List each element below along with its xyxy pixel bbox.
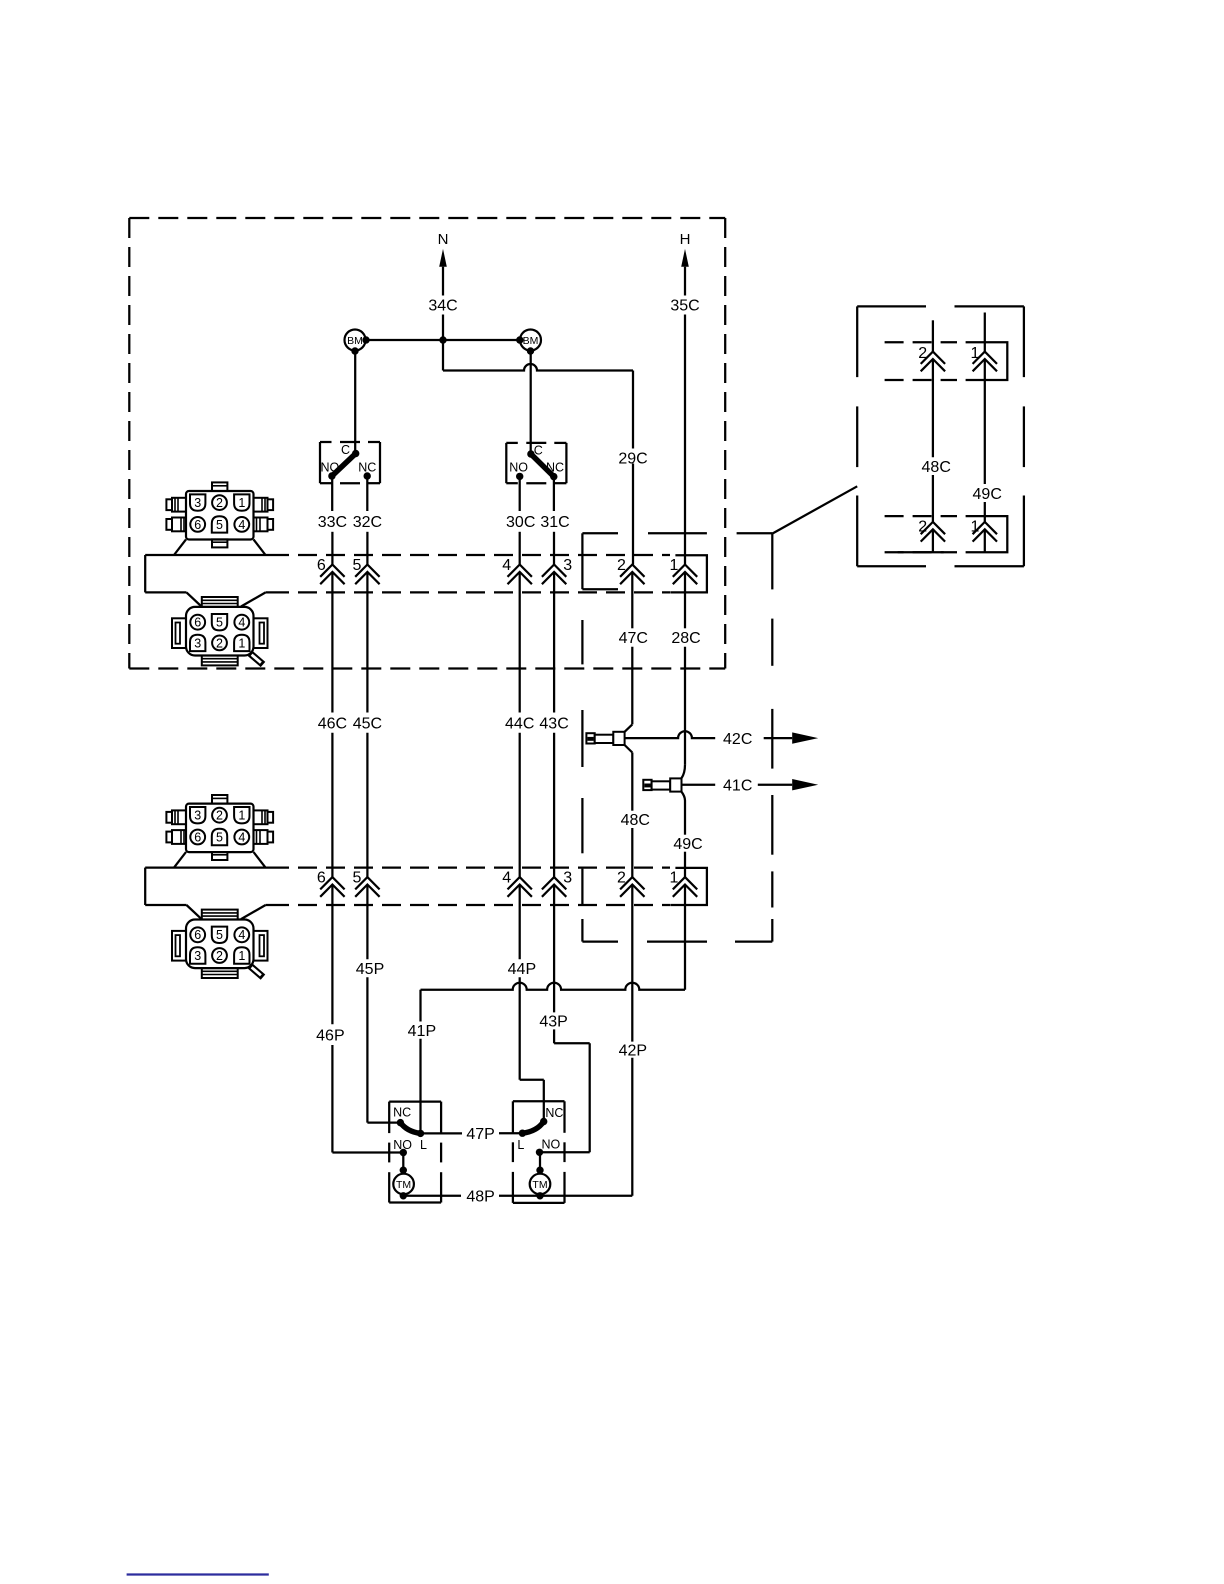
svg-text:C: C	[341, 443, 350, 457]
svg-text:42C: 42C	[723, 731, 752, 748]
svg-text:41C: 41C	[723, 777, 752, 794]
svg-text:NO: NO	[509, 461, 528, 475]
svg-text:48C: 48C	[922, 459, 951, 476]
svg-text:5: 5	[216, 518, 223, 532]
svg-text:BM: BM	[523, 335, 539, 347]
svg-text:43C: 43C	[539, 715, 568, 732]
svg-text:2: 2	[617, 557, 626, 574]
svg-text:L: L	[517, 1138, 524, 1152]
svg-text:35C: 35C	[670, 297, 699, 314]
svg-text:2: 2	[918, 345, 927, 362]
svg-text:44C: 44C	[505, 715, 534, 732]
svg-text:31C: 31C	[540, 514, 569, 531]
svg-text:5: 5	[216, 616, 223, 630]
svg-text:NC: NC	[393, 1105, 411, 1119]
svg-text:4: 4	[238, 830, 245, 844]
svg-text:2: 2	[216, 496, 223, 510]
svg-text:47P: 47P	[466, 1126, 494, 1143]
svg-text:4: 4	[502, 557, 511, 574]
svg-text:30C: 30C	[506, 514, 535, 531]
svg-text:N: N	[438, 231, 449, 248]
svg-text:41P: 41P	[408, 1023, 436, 1040]
svg-text:TM: TM	[396, 1179, 411, 1191]
svg-text:33C: 33C	[318, 514, 347, 531]
svg-text:6: 6	[194, 830, 201, 844]
svg-text:1: 1	[238, 636, 245, 650]
svg-text:5: 5	[216, 928, 223, 942]
svg-text:6: 6	[194, 518, 201, 532]
svg-text:NO: NO	[542, 1138, 561, 1152]
svg-text:3: 3	[563, 557, 572, 574]
svg-text:3: 3	[194, 809, 201, 823]
svg-text:45P: 45P	[356, 961, 384, 978]
svg-text:5: 5	[353, 557, 362, 574]
svg-text:1: 1	[238, 949, 245, 963]
svg-text:46P: 46P	[316, 1027, 344, 1044]
svg-text:46C: 46C	[318, 715, 347, 732]
svg-text:3: 3	[194, 496, 201, 510]
svg-text:3: 3	[194, 636, 201, 650]
svg-text:H: H	[680, 231, 691, 248]
svg-text:4: 4	[502, 870, 511, 887]
svg-text:42P: 42P	[619, 1042, 647, 1059]
svg-text:1: 1	[971, 345, 980, 362]
svg-text:1: 1	[670, 557, 679, 574]
svg-text:34C: 34C	[428, 297, 457, 314]
svg-text:L: L	[420, 1138, 427, 1152]
svg-text:1: 1	[238, 809, 245, 823]
svg-text:2: 2	[216, 636, 223, 650]
svg-text:4: 4	[238, 616, 245, 630]
svg-text:4: 4	[238, 518, 245, 532]
svg-text:3: 3	[194, 949, 201, 963]
svg-text:49C: 49C	[973, 486, 1002, 503]
svg-text:6: 6	[194, 928, 201, 942]
svg-text:43P: 43P	[539, 1013, 567, 1030]
svg-text:47C: 47C	[619, 630, 648, 647]
svg-text:48C: 48C	[621, 812, 650, 829]
svg-text:NC: NC	[358, 461, 376, 475]
svg-text:3: 3	[563, 870, 572, 887]
svg-text:28C: 28C	[671, 630, 700, 647]
svg-text:2: 2	[216, 949, 223, 963]
svg-text:32C: 32C	[353, 514, 382, 531]
svg-text:49C: 49C	[673, 836, 702, 853]
svg-text:2: 2	[617, 870, 626, 887]
svg-text:6: 6	[194, 616, 201, 630]
svg-text:6: 6	[317, 557, 326, 574]
svg-text:5: 5	[216, 830, 223, 844]
svg-text:2: 2	[216, 809, 223, 823]
svg-text:BM: BM	[347, 335, 363, 347]
svg-text:48P: 48P	[466, 1188, 494, 1205]
svg-text:NO: NO	[321, 461, 340, 475]
svg-text:44P: 44P	[508, 961, 536, 978]
svg-text:TM: TM	[532, 1179, 547, 1191]
svg-text:6: 6	[317, 870, 326, 887]
svg-text:2: 2	[918, 518, 927, 535]
svg-text:4: 4	[238, 928, 245, 942]
svg-text:1: 1	[971, 518, 980, 535]
svg-text:1: 1	[238, 496, 245, 510]
svg-text:NC: NC	[545, 1106, 563, 1120]
svg-text:45C: 45C	[353, 715, 382, 732]
svg-text:1: 1	[670, 870, 679, 887]
svg-text:NC: NC	[546, 461, 564, 475]
svg-text:5: 5	[353, 870, 362, 887]
